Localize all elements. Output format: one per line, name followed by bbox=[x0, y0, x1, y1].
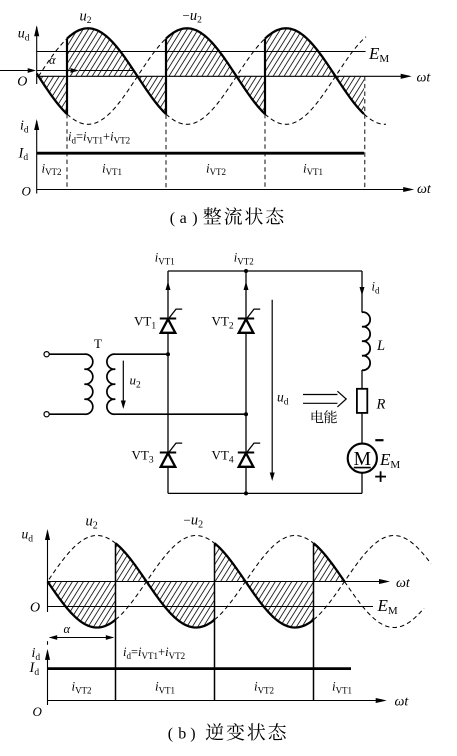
svg-text:ωt: ωt bbox=[417, 71, 432, 86]
node: i_VT1 current arrow bbox=[166, 282, 171, 291]
node: label u_d (circuit) bbox=[277, 390, 289, 408]
node: dashed u2 / -u2 curves (b) bbox=[49, 536, 431, 628]
node: label u_d (a) bbox=[18, 27, 30, 44]
node: caption (a) rectifier state bbox=[170, 207, 284, 227]
node: E_M level line (b) bbox=[48, 596, 398, 617]
svg-text:O: O bbox=[17, 74, 27, 89]
node: electric-energy flow arrow (dian neng) bbox=[303, 391, 346, 407]
svg-text:R: R bbox=[376, 397, 386, 413]
node: label i_d (b) bbox=[32, 646, 41, 663]
node: conduction interval labels (b) bbox=[71, 679, 352, 696]
svg-text:ωt: ωt bbox=[417, 182, 432, 197]
thyristor VT1 bbox=[134, 309, 182, 333]
node: alpha arrow line (a) bbox=[0, 53, 134, 73]
svg-text:b: b bbox=[178, 726, 186, 743]
node: i_d axis (a) bbox=[22, 119, 432, 199]
node: formula i_d = i_VT1 + i_VT2 (a) bbox=[68, 130, 130, 146]
node: junction top bus / right leg bbox=[244, 269, 248, 273]
node: junction bottom bus / right leg bbox=[244, 491, 248, 495]
node: E_M level line (a) bbox=[37, 44, 390, 65]
node: i_d axis (b) bbox=[33, 641, 410, 719]
wire: top dc bus bbox=[168, 270, 362, 272]
node: label T bbox=[94, 336, 102, 351]
node: dashed u2 / -u2 curves (a) bbox=[39, 37, 387, 125]
wire: left bridge leg bbox=[167, 271, 169, 493]
svg-text:ωt: ωt bbox=[396, 576, 411, 591]
node: i_d current arrow bbox=[360, 287, 365, 296]
node: label I_d (a) bbox=[18, 145, 29, 163]
node: label i_d (circuit) bbox=[372, 280, 380, 296]
wire: right branch (load) bbox=[361, 271, 363, 493]
node: label -u2 (b) bbox=[184, 513, 204, 531]
node: label i_VT2 bbox=[234, 251, 254, 267]
resistor R bbox=[357, 389, 386, 413]
svg-text:(: ( bbox=[168, 726, 173, 743]
node: junction secondary-top / left leg bbox=[166, 352, 170, 356]
node: u_d voltage arrow bbox=[270, 300, 275, 481]
node: label u2 (a) bbox=[80, 9, 92, 27]
node: u_d hatched waveform (b) bbox=[48, 543, 345, 627]
node: label u2 (circuit) bbox=[130, 373, 142, 391]
svg-text:(: ( bbox=[170, 210, 175, 227]
svg-text:O: O bbox=[22, 184, 32, 199]
wire: plot-b omega-t axis bbox=[48, 576, 411, 591]
node: constant I_d current line (b) bbox=[48, 667, 352, 670]
node: constant I_d current line (a) bbox=[37, 152, 364, 155]
node: u2 voltage arrow bbox=[121, 361, 126, 409]
motor M with back-EMF E_M bbox=[348, 440, 401, 482]
svg-text:): ) bbox=[190, 726, 195, 743]
svg-text:O: O bbox=[33, 704, 43, 719]
inductor L bbox=[362, 312, 385, 370]
wire: right bridge leg bbox=[245, 271, 247, 493]
node: label dian-neng (electric energy) bbox=[312, 410, 337, 423]
svg-text:ωt: ωt bbox=[395, 695, 410, 710]
node: origin O (b waveform) bbox=[30, 600, 40, 615]
node: primary terminal top bbox=[44, 352, 49, 357]
node: label i_d (a) bbox=[20, 119, 29, 136]
node: origin O (a waveform) bbox=[17, 74, 27, 89]
thyristor VT4 bbox=[212, 443, 261, 467]
thyristor VT3 bbox=[132, 443, 183, 467]
node: plot-a u_d axis bbox=[34, 25, 39, 84]
node: junction secondary-bottom / right leg bbox=[244, 412, 248, 416]
transformer T primary winding bbox=[49, 354, 93, 414]
node: i_VT2 current arrow bbox=[244, 282, 249, 291]
node: caption (b) inverter state bbox=[168, 723, 286, 743]
node: alpha dimension arrow (b) bbox=[49, 622, 115, 640]
svg-text:T: T bbox=[94, 336, 102, 351]
node: label u2 (b) bbox=[86, 514, 98, 532]
wire: bottom dc bus bbox=[168, 492, 362, 494]
node: formula i_d = i_VT1 + i_VT2 (b) bbox=[123, 645, 185, 661]
node: primary terminal bottom bbox=[44, 412, 49, 417]
wire: plot-a omega-t axis bbox=[37, 71, 432, 86]
svg-text:α: α bbox=[64, 622, 71, 636]
node: label -u2 (a) bbox=[183, 8, 203, 26]
svg-text:O: O bbox=[30, 600, 40, 615]
wire: firing-instant verticals (b) bbox=[116, 543, 314, 700]
node: label i_VT1 bbox=[155, 251, 175, 267]
svg-text:L: L bbox=[376, 338, 385, 354]
svg-text:): ) bbox=[192, 210, 197, 227]
wire: dashed firing-instant verticals (a) bbox=[67, 39, 365, 190]
thyristor VT2 bbox=[212, 309, 261, 333]
node: label u_d (b) bbox=[22, 527, 34, 545]
svg-text:a: a bbox=[180, 210, 187, 227]
svg-text:M: M bbox=[354, 449, 371, 470]
node: u_d hatched waveform (a) bbox=[37, 28, 364, 114]
node: conduction interval labels (a) bbox=[41, 160, 323, 177]
node: label I_d (b) bbox=[29, 660, 40, 678]
transformer T secondary winding bbox=[107, 354, 246, 414]
node: plot-b u_d axis bbox=[45, 529, 50, 612]
